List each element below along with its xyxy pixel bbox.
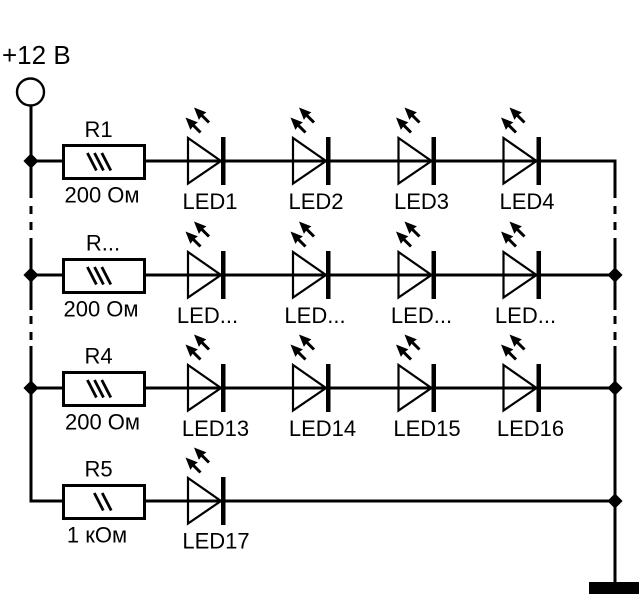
resistor R... (row 2): [64, 260, 145, 293]
svg-text:LED...: LED...: [284, 303, 345, 328]
LED LED17: [186, 448, 226, 526]
wire row 3 horizontal: [31, 387, 615, 390]
svg-text:1 кОм: 1 кОм: [67, 523, 127, 548]
junction: left bus row1: [23, 153, 38, 168]
junction: right bus row4: [607, 493, 622, 508]
wire: right bus dash 1: [614, 206, 617, 214]
wire: left bus solid through row2: [30, 238, 33, 310]
LED LED3: [396, 108, 436, 186]
svg-text:LED13: LED13: [182, 416, 249, 441]
LED LED16: [501, 335, 541, 413]
LED LED15: [396, 335, 436, 413]
power terminal circle: [17, 79, 44, 106]
svg-text:200 Ом: 200 Ом: [64, 183, 139, 208]
LED LED2: [291, 108, 331, 186]
junction: left bus row3: [23, 380, 38, 395]
svg-text:+12 В: +12 В: [2, 40, 71, 70]
svg-text:LED15: LED15: [393, 416, 460, 441]
svg-text:LED4: LED4: [499, 189, 554, 214]
LED LED1: [186, 108, 226, 186]
svg-text:LED3: LED3: [394, 189, 449, 214]
ground symbol: [589, 582, 639, 594]
svg-text:LED16: LED16: [497, 416, 564, 441]
wire row 1 horizontal: [31, 160, 615, 163]
wire: left bus dash 4: [30, 332, 33, 340]
LED row2 d: [501, 222, 541, 300]
svg-text:R...: R...: [86, 231, 120, 256]
svg-text:R1: R1: [84, 117, 112, 142]
wire: right bus dash 4: [614, 332, 617, 340]
LED row2 a: [186, 222, 226, 300]
LED LED4: [501, 108, 541, 186]
LED row2 c: [396, 222, 436, 300]
wire: terminal to left bus junction: [30, 106, 33, 164]
svg-text:LED14: LED14: [289, 416, 356, 441]
svg-text:LED...: LED...: [495, 303, 556, 328]
svg-text:200 Ом: 200 Ом: [63, 297, 138, 322]
LED LED13: [186, 335, 226, 413]
resistor R5: [64, 486, 145, 519]
wire: right bus dash 3: [614, 316, 617, 324]
wire: left bus solid below row1: [30, 161, 33, 198]
wire: left bus dash 1: [30, 206, 33, 214]
wire row 4 horizontal: [31, 500, 615, 503]
resistor R1: [64, 146, 145, 179]
junction: right bus row3: [607, 380, 622, 395]
wire: left bus solid row3 to row4 corner: [30, 346, 33, 503]
svg-text:LED...: LED...: [391, 303, 452, 328]
svg-text:200 Ом: 200 Ом: [65, 410, 140, 435]
LED LED14: [291, 335, 331, 413]
svg-text:LED17: LED17: [182, 529, 249, 554]
svg-text:LED...: LED...: [177, 303, 238, 328]
wire row 2 horizontal: [31, 274, 615, 277]
resistor R4: [64, 373, 145, 406]
svg-text:LED2: LED2: [288, 189, 343, 214]
wire: left bus dash 3: [30, 316, 33, 324]
wire: right bus solid below row1 corner: [614, 160, 617, 199]
junction: left bus row2: [23, 267, 38, 282]
wire: right bus solid through row2: [614, 238, 617, 310]
svg-text:R4: R4: [84, 344, 112, 369]
junction: right bus row2: [607, 267, 622, 282]
wire: right bus solid row3 to ground: [614, 346, 617, 583]
svg-text:R5: R5: [84, 457, 112, 482]
svg-text:LED1: LED1: [182, 189, 237, 214]
wire: right bus dash 2: [614, 222, 617, 230]
LED row2 b: [291, 222, 331, 300]
wire: left bus dash 2: [30, 222, 33, 230]
